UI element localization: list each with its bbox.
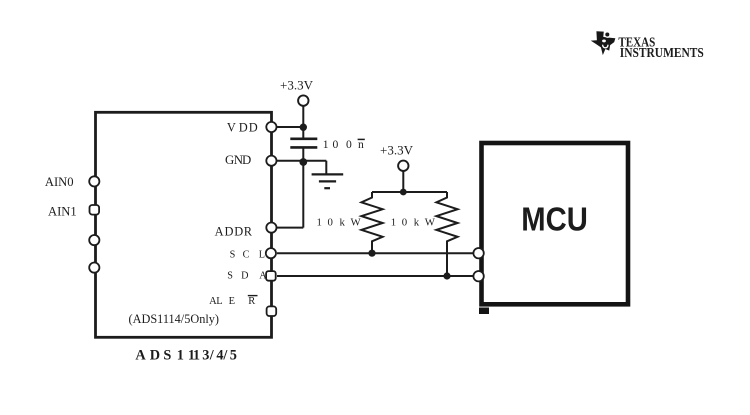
svg-text:AIN0: AIN0 bbox=[45, 175, 74, 189]
svg-text:ALER: ALER bbox=[209, 296, 255, 307]
svg-text:10kW: 10kW bbox=[391, 216, 436, 228]
svg-text:ADDR: ADDR bbox=[215, 225, 253, 239]
svg-text:GND: GND bbox=[225, 153, 251, 167]
svg-text:VDD: VDD bbox=[227, 120, 258, 134]
svg-text:SDA: SDA bbox=[227, 270, 267, 281]
svg-text:10kW: 10kW bbox=[317, 216, 362, 228]
svg-text:ADS1113/4/5: ADS1113/4/5 bbox=[135, 347, 237, 363]
svg-text:+3.3V: +3.3V bbox=[380, 143, 414, 158]
svg-text:(ADS1114/5Only): (ADS1114/5Only) bbox=[129, 311, 220, 326]
svg-text:+3.3V: +3.3V bbox=[280, 77, 314, 92]
svg-text:AIN1: AIN1 bbox=[48, 204, 77, 218]
svg-text:MCU: MCU bbox=[521, 201, 588, 238]
svg-text:SCL: SCL bbox=[230, 250, 265, 261]
svg-text:INSTRUMENTS: INSTRUMENTS bbox=[620, 45, 704, 60]
